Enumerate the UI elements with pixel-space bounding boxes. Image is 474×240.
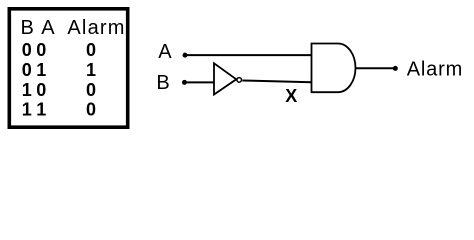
svg-text:B: B [156,72,169,94]
truth table row 2: 0 1 -> 1 [22,60,96,80]
svg-text:0: 0 [36,40,46,60]
svg-text:1: 1 [22,100,32,120]
svg-text:0: 0 [86,80,96,100]
svg-text:1: 1 [36,60,46,80]
AND gate U2 [312,44,356,93]
truth table row 4: 1 1 -> 0 [22,100,96,120]
svg-text:0: 0 [22,60,32,80]
truth table row 3: 1 0 -> 0 [22,80,96,100]
wire A to AND gate top input [185,54,312,56]
truth table frame [9,9,127,127]
node Alarm terminal dot [393,66,398,71]
inverter U1 (NOT gate triangle) [214,63,236,94]
wire B to inverter input [185,81,215,83]
svg-text:Alarm: Alarm [67,17,125,39]
svg-text:A: A [41,17,55,39]
svg-text:1: 1 [22,80,32,100]
inverter U1 output bubble [237,78,242,83]
svg-text:1: 1 [36,100,46,120]
svg-text:Alarm: Alarm [407,59,463,81]
svg-text:0: 0 [22,40,32,60]
svg-text:0: 0 [36,80,46,100]
svg-text:X: X [285,86,297,106]
svg-text:A: A [158,41,172,63]
svg-text:B: B [21,17,34,39]
node B terminal dot [182,80,187,85]
svg-text:0: 0 [86,40,96,60]
truth table header: B A Alarm [21,17,126,39]
wire AND gate output to Alarm node [356,67,395,69]
truth table row 1: 0 0 -> 0 [22,40,96,60]
svg-text:0: 0 [86,100,96,120]
node A terminal dot [183,53,188,58]
svg-text:1: 1 [86,60,96,80]
wire X from inverter to AND gate bottom input [242,81,311,83]
